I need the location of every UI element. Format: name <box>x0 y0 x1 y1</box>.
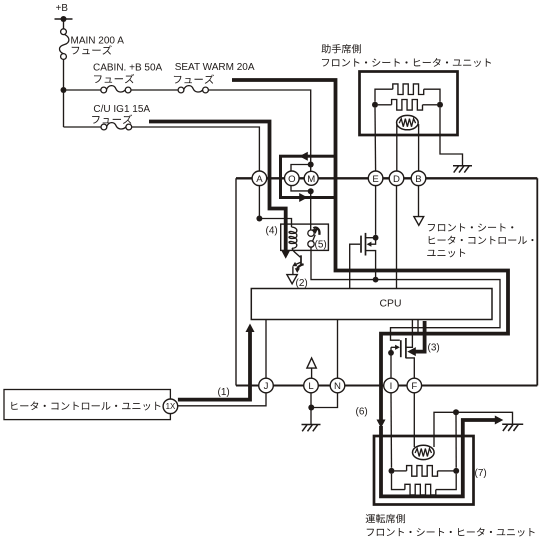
wire drain sense to CPU <box>406 320 413 348</box>
arrow in from other page (L) <box>307 358 316 368</box>
relay contact (5) <box>312 235 315 242</box>
junction relay top <box>308 162 314 168</box>
svg-text:(5): (5) <box>315 239 327 250</box>
wire driver thermostat to ground <box>434 412 513 447</box>
terminal L <box>304 378 319 393</box>
+B terminal <box>55 18 73 20</box>
wire terminal B to control unit <box>418 186 420 217</box>
front seat heater control unit box <box>236 177 537 179</box>
arrow power flow into relay coil <box>281 250 290 259</box>
wire junction down to IG1 row <box>63 90 65 127</box>
wire relay to contact (5) <box>310 191 312 230</box>
junction gate line <box>388 350 394 356</box>
terminal B <box>411 171 426 186</box>
wire <box>423 104 438 106</box>
label fuse (MAIN) <box>72 45 112 54</box>
svg-text:B: B <box>415 174 421 185</box>
arrow power flow to ground <box>495 416 504 425</box>
wire MOSFET source down <box>366 251 376 278</box>
svg-text:(7): (7) <box>475 468 487 479</box>
label fuse (CABIN) <box>94 74 134 83</box>
heater relay box <box>281 156 336 197</box>
label fuse (C/U IG1) <box>92 114 132 123</box>
wire junction to CABIN fuse <box>67 89 101 91</box>
heater element (driver upper) <box>407 466 438 477</box>
wire relay sense to gate (3) <box>377 280 500 341</box>
junction driver left <box>389 468 395 474</box>
label line2 <box>429 236 534 245</box>
svg-text:F: F <box>411 381 417 392</box>
wire <box>395 470 407 472</box>
svg-text:CPU: CPU <box>380 299 402 310</box>
wire terminal D to CPU <box>396 186 398 289</box>
svg-text:L: L <box>308 381 314 392</box>
terminal 1X <box>163 399 178 414</box>
wire C/U IG1 fuse to terminal A <box>132 127 260 171</box>
arrow power into transistor (3) <box>407 347 416 356</box>
MOSFET Q2 (passenger heater driver) <box>360 236 362 253</box>
wire junction down to heater <box>455 412 457 468</box>
wire CPU to terminal J <box>265 320 267 379</box>
wire SEAT WARM fuse to heater relay <box>208 90 310 162</box>
relay coil box <box>281 224 329 250</box>
wire passenger heater to E <box>374 108 377 171</box>
arrow emitter current <box>295 268 300 273</box>
junction A branch <box>256 216 262 222</box>
arrow to control unit <box>414 217 424 226</box>
arrow current in relay top <box>299 152 308 161</box>
terminal A <box>252 171 267 186</box>
terminal J <box>259 378 274 393</box>
breaker O <box>285 171 300 186</box>
label front seat heater unit (passenger) <box>322 58 491 67</box>
ground (driver unit) <box>502 424 523 431</box>
driver heater unit box <box>374 436 474 505</box>
terminal D <box>389 171 404 186</box>
wire N to ground branch <box>311 393 337 408</box>
junction L ground branch <box>308 405 314 411</box>
arrow power flow down (6) <box>377 420 386 429</box>
fuse MAIN 200A <box>59 34 68 54</box>
wire MAIN fuse to junction <box>63 59 65 90</box>
junction main feed <box>61 87 67 93</box>
ground (passenger unit) <box>453 166 472 173</box>
motor M <box>304 171 318 185</box>
svg-text:MAIN 200 A: MAIN 200 A <box>71 36 125 47</box>
heater element (passenger lower) <box>392 100 423 111</box>
svg-text:(2): (2) <box>296 278 308 289</box>
heater control unit box <box>4 390 170 420</box>
svg-text:J: J <box>264 381 269 392</box>
wire CABIN fuse to SEAT WARM fuse <box>131 89 178 91</box>
svg-text:1X: 1X <box>166 402 176 411</box>
wire terminal E down <box>375 186 377 235</box>
wire lower element return <box>436 474 456 490</box>
arrow signal flow up to CPU <box>246 324 255 333</box>
heater element (driver lower) <box>405 484 436 495</box>
thermostat (driver) <box>413 445 435 459</box>
wire contact (5) to node <box>311 247 374 279</box>
svg-text:C/U IG1 15A: C/U IG1 15A <box>93 104 150 115</box>
wire gate to CPU <box>350 244 360 288</box>
label line1 <box>428 223 513 231</box>
ground (control unit) <box>302 425 321 432</box>
wire +B to MAIN fuse <box>63 19 65 29</box>
wire thick IG1 power path <box>149 122 286 251</box>
junction drain <box>373 235 379 241</box>
wire to C/U IG1 fuse <box>64 126 102 128</box>
wire to terminal L <box>311 368 313 378</box>
wire source to terminal F <box>406 358 414 378</box>
wire thick seat-warm power path <box>232 80 508 421</box>
svg-text:(1): (1) <box>218 387 230 398</box>
wire <box>378 104 392 106</box>
terminal F <box>407 378 422 393</box>
wire to upper element <box>375 89 393 102</box>
svg-text:(4): (4) <box>266 226 278 237</box>
wire terminal F to driver thermostat <box>413 393 415 447</box>
wire to lower element <box>392 474 405 490</box>
CPU box <box>251 289 492 320</box>
label driver side <box>366 514 405 523</box>
svg-text:D: D <box>393 174 400 185</box>
transistor Q1 (2) <box>292 248 295 252</box>
wire breaker O top <box>291 165 311 172</box>
wire thermostat to B <box>418 124 420 171</box>
thermostat (passenger) <box>397 115 419 129</box>
svg-text:M: M <box>307 174 315 185</box>
relay coil L1 <box>289 227 297 248</box>
fuse SEAT WARM 20A <box>184 86 203 92</box>
label line3 <box>427 249 465 258</box>
wire relay M feed <box>310 162 312 171</box>
wire to relay coil <box>259 219 291 228</box>
wire terminal I up <box>390 353 392 378</box>
terminal N <box>330 378 345 393</box>
wire 1X to terminal J <box>178 393 266 406</box>
wire breaker O bottom <box>291 185 311 191</box>
svg-text:N: N <box>334 381 341 392</box>
svg-text:(3): (3) <box>428 343 440 354</box>
label passenger side <box>322 44 361 53</box>
svg-text:I: I <box>390 381 393 392</box>
wire <box>438 470 454 472</box>
arrow current in relay bottom <box>299 193 308 202</box>
wire CPU to power path <box>417 320 419 334</box>
terminal I <box>384 378 399 393</box>
wire thermostat to D <box>396 124 398 171</box>
junction source to relay line <box>373 277 379 283</box>
wire terminal A down <box>258 186 260 219</box>
fuse CABIN +B 50A <box>107 86 126 92</box>
svg-text:E: E <box>372 174 378 185</box>
junction driver right <box>453 468 459 474</box>
wire CPU to terminal N <box>337 320 339 379</box>
label heater control unit <box>11 401 160 410</box>
junction relay bottom <box>308 188 314 194</box>
junction passenger right <box>437 102 443 108</box>
wire thick heater control signal path <box>178 332 250 400</box>
wire thick driver heater ground path <box>381 420 496 496</box>
arrow out terminal (2) <box>287 275 297 284</box>
svg-text:CABIN. +B 50A: CABIN. +B 50A <box>93 63 163 74</box>
svg-text:SEAT WARM 20A: SEAT WARM 20A <box>175 62 255 73</box>
label front seat heater unit (driver) <box>367 528 535 537</box>
svg-text:A: A <box>256 174 263 185</box>
arrow contact actuation <box>311 227 318 234</box>
wire terminal L to ground <box>310 393 312 425</box>
terminal E <box>368 171 383 186</box>
wire thick power to transistor (3) <box>414 321 425 352</box>
fuse C/U IG1 15A <box>107 123 126 129</box>
wire passenger heater to ground <box>440 108 463 166</box>
wire terminal I to driver heater <box>390 393 393 468</box>
label fuse (SEAT WARM) <box>174 74 214 83</box>
junction driver heater ground <box>453 409 459 415</box>
wire upper element return <box>424 89 440 102</box>
svg-text:O: O <box>288 174 295 185</box>
heater element (passenger upper) <box>393 84 424 95</box>
junction passenger left <box>372 102 378 108</box>
svg-text:+B: +B <box>56 3 69 14</box>
MOSFET Q3 (3) driver heater driver <box>400 340 402 357</box>
svg-text:(6): (6) <box>356 407 368 418</box>
passenger heater unit box <box>360 72 458 136</box>
